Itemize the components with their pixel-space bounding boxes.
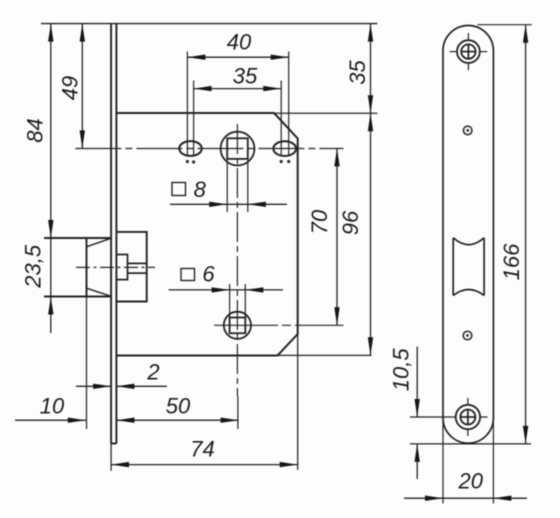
extension line 40 right [287,52,290,164]
dimension 10 [15,394,86,423]
hub vertical centerline [236,124,239,429]
svg-text:96: 96 [338,210,363,235]
faceplate side extensions [443,418,493,504]
svg-text:50: 50 [166,394,191,419]
faceplate bottom extension line [410,443,531,445]
svg-text:35: 35 [345,60,370,85]
square 8 extension lines [227,160,248,212]
dimension 49 [58,24,86,149]
top extension line (strip top) [41,23,377,25]
body right edge extension down [297,334,299,470]
top screw hole faceplate [450,33,488,70]
svg-text:70: 70 [307,209,332,234]
dimension 10,5 [388,347,420,480]
svg-text:10,5: 10,5 [388,348,413,392]
svg-text:40: 40 [227,30,252,55]
hub horizontal centerline [75,148,343,150]
dimension 40 [187,30,288,60]
dimension 23,5 [20,238,53,333]
svg-text:6: 6 [202,262,215,287]
dimension 96 [338,113,373,355]
bottom screw hole faceplate [410,398,488,436]
dimension 70 [307,148,340,325]
svg-text:84: 84 [23,118,48,142]
upper small hole [463,126,472,135]
dimension 35 horizontal [194,64,282,92]
faceplate front outline [443,26,493,444]
latch centerline [76,266,155,268]
dimension 166 [499,25,528,444]
dimension square 8 [170,177,287,207]
square 6 extension lines [230,284,246,318]
left screw hole [179,141,202,156]
extension line 35 right [280,81,283,164]
dimension 20 [404,469,527,501]
latch tail bar [128,263,147,273]
body top edge extension right [274,112,377,114]
lower spindle hub [224,312,251,339]
svg-text:49: 49 [58,76,83,100]
latch bolt head [44,238,111,429]
svg-text:10: 10 [40,394,65,419]
lower hub horizontal centerline [214,324,344,326]
dimension 2 [76,360,167,390]
latch bevel bottom [87,288,111,296]
svg-text:166: 166 [499,243,524,280]
spindle hub [221,132,255,166]
latch bevel top [87,238,111,247]
svg-text:23,5: 23,5 [20,244,45,289]
svg-text:35: 35 [233,64,258,89]
dimension 35 vertical [345,24,373,114]
body bottom edge extension right [278,354,372,356]
latch tail block [116,255,127,280]
dimension 84 [23,24,54,238]
lock body outline [116,113,297,356]
right screw hole [273,141,296,156]
dimension 50 [116,394,238,423]
svg-text:8: 8 [194,177,207,202]
extension line 40 left [186,52,189,164]
svg-text:74: 74 [190,437,214,462]
faceplate edge strip (left view) [111,24,116,471]
dimension 74 [111,437,298,468]
extension line 35 left [192,81,195,164]
svg-text:20: 20 [458,469,484,494]
svg-text:2: 2 [146,360,159,385]
lower small hole [463,331,472,340]
faceplate top extension line [477,24,531,26]
latch window [453,238,484,296]
dimension square 6 [169,262,283,293]
latch follower housing [116,232,146,302]
